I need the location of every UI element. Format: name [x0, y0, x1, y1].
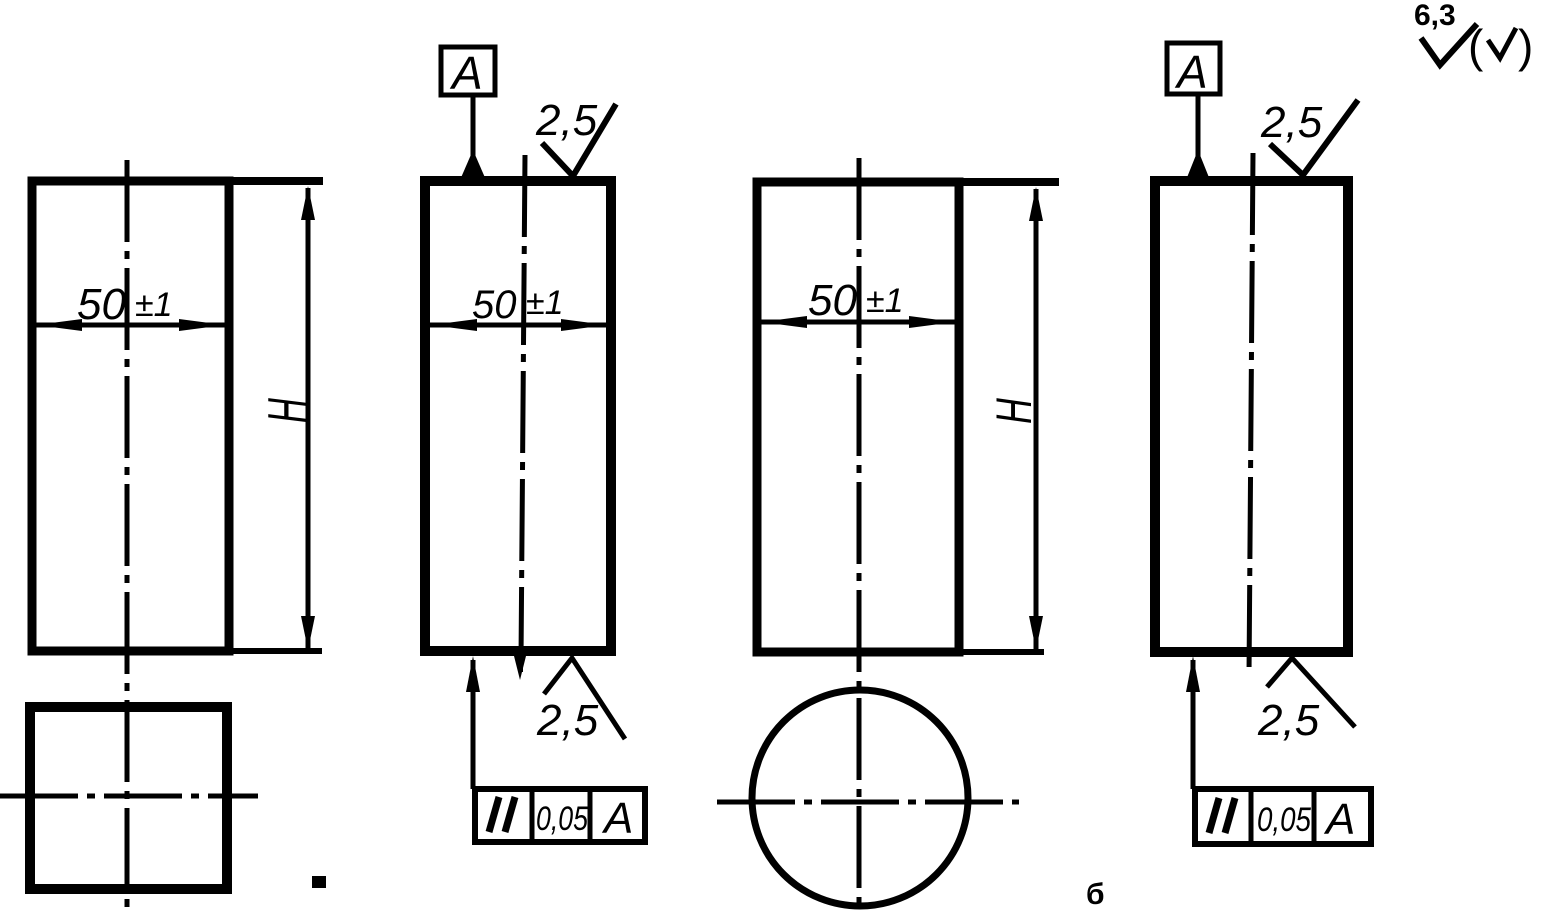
svg-text:2,5: 2,5: [1260, 98, 1323, 147]
svg-text:A: A: [1323, 795, 1355, 844]
svg-text:±1: ±1: [866, 282, 904, 320]
svg-text:A: A: [449, 47, 483, 99]
svg-text:б: б: [1086, 878, 1105, 911]
svg-text:2,5: 2,5: [1257, 696, 1320, 745]
svg-text:H: H: [986, 398, 1043, 424]
svg-text:0,05: 0,05: [1257, 801, 1311, 839]
svg-text:±1: ±1: [526, 284, 564, 322]
svg-text:50: 50: [77, 280, 126, 329]
svg-text:0,05: 0,05: [536, 800, 588, 838]
svg-text:2,5: 2,5: [535, 96, 598, 145]
svg-text:50: 50: [808, 276, 857, 325]
svg-text:): ): [1518, 20, 1533, 72]
svg-text:A: A: [1174, 46, 1208, 98]
svg-text:2,5: 2,5: [536, 696, 599, 745]
svg-text:50: 50: [472, 283, 517, 327]
svg-text:A: A: [601, 794, 633, 843]
svg-text:H: H: [257, 398, 318, 423]
svg-text:6,3: 6,3: [1414, 0, 1456, 32]
svg-text:±1: ±1: [135, 286, 173, 324]
svg-text:(: (: [1468, 20, 1484, 72]
